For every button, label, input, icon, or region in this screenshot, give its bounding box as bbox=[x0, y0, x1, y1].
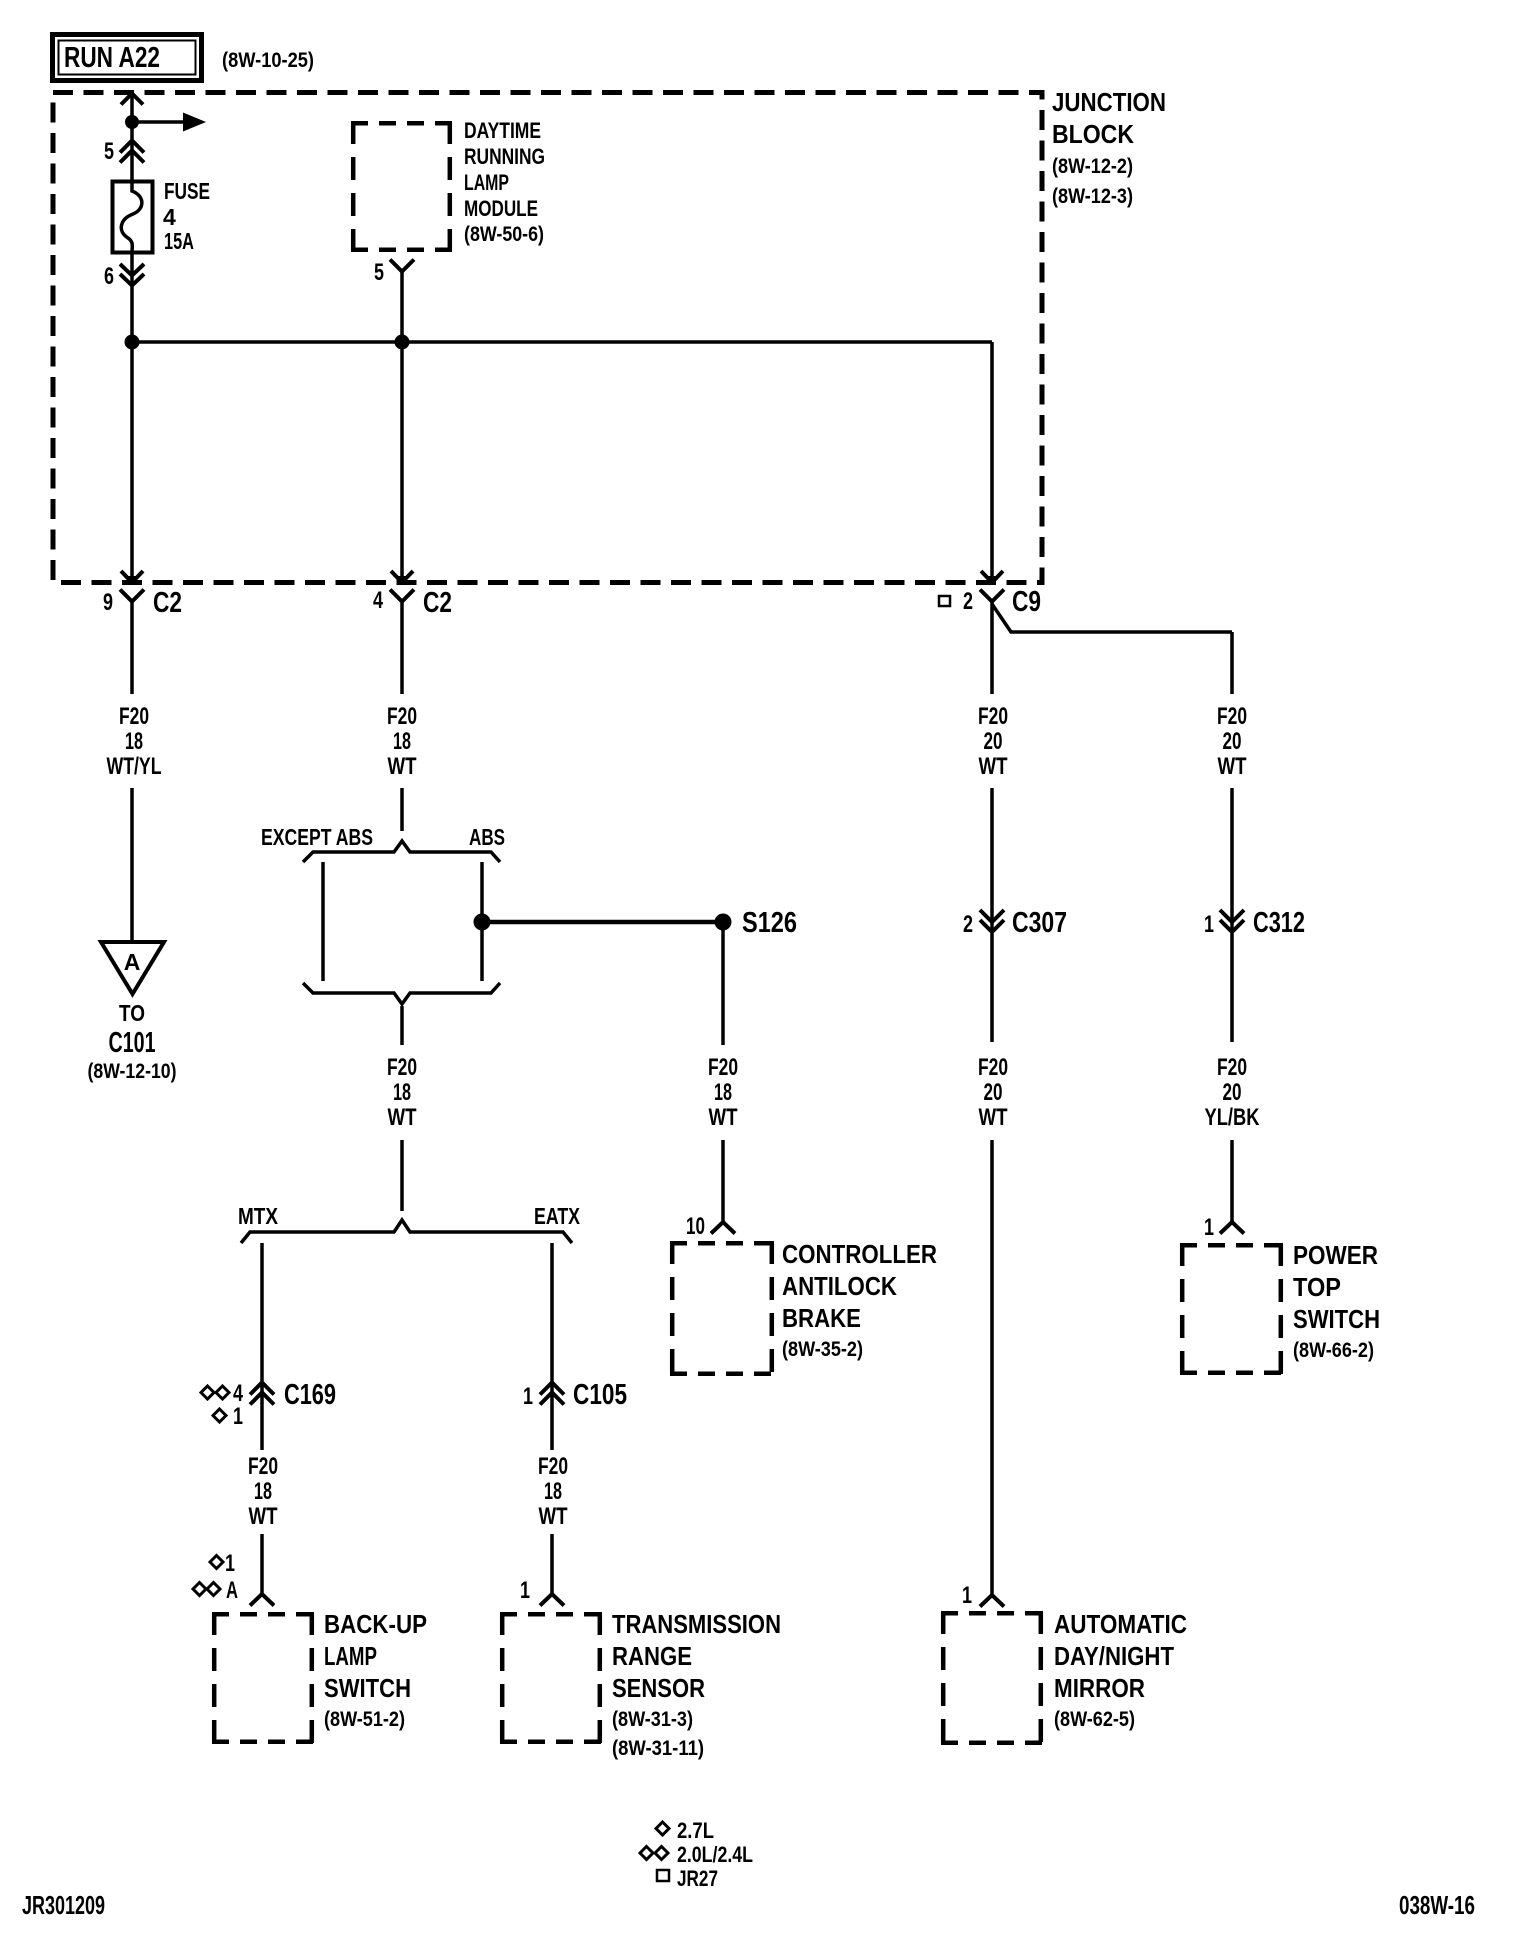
svg-text:AUTOMATIC: AUTOMATIC bbox=[1054, 1609, 1187, 1639]
connector C169 (double chevron up) bbox=[250, 1383, 274, 1405]
wire: bus right to connector C9 bbox=[990, 342, 994, 577]
svg-text:C312: C312 bbox=[1253, 907, 1305, 939]
svg-text:FUSE: FUSE bbox=[164, 178, 210, 204]
svg-text:TRANSMISSION: TRANSMISSION bbox=[612, 1609, 781, 1639]
svg-text:20: 20 bbox=[1223, 1079, 1242, 1106]
wire label F20 18 WT (MTX) bbox=[248, 1453, 278, 1530]
wire: C307 to automatic day/night mirror bbox=[990, 1140, 994, 1595]
connector arrow from RUN A22 into junction block bbox=[121, 94, 143, 123]
svg-text:ANTILOCK: ANTILOCK bbox=[782, 1271, 897, 1301]
svg-text:A: A bbox=[124, 949, 141, 975]
fuse F4 15A bbox=[113, 181, 153, 253]
brace: MTX/EATX split bbox=[241, 1220, 572, 1243]
connector C2 pin 9 bbox=[120, 571, 144, 602]
svg-text:20: 20 bbox=[1223, 728, 1242, 755]
svg-text:(8W-12-2): (8W-12-2) bbox=[1052, 155, 1133, 178]
svg-text:4: 4 bbox=[163, 204, 176, 230]
svg-text:5: 5 bbox=[104, 138, 114, 165]
svg-text:WT: WT bbox=[1218, 753, 1247, 780]
svg-text:F20: F20 bbox=[1217, 1054, 1247, 1081]
wire: label to controller antilock brake bbox=[721, 1140, 725, 1222]
svg-text:SWITCH: SWITCH bbox=[324, 1673, 411, 1703]
svg-text:ABS: ABS bbox=[469, 824, 505, 850]
svg-text:F20: F20 bbox=[119, 703, 149, 730]
svg-text:10: 10 bbox=[686, 1213, 705, 1240]
connector C105 (double chevron up) bbox=[540, 1383, 564, 1405]
svg-text:MTX: MTX bbox=[238, 1203, 279, 1229]
wire label F20 20 YL/BK (power top branch) bbox=[1205, 1054, 1261, 1131]
svg-text:2.7L: 2.7L bbox=[677, 1818, 714, 1843]
svg-text:1: 1 bbox=[520, 1577, 530, 1604]
wire label F20 18 WT (EATX) bbox=[538, 1453, 568, 1530]
svg-text:18: 18 bbox=[254, 1478, 272, 1505]
svg-text:1: 1 bbox=[1204, 911, 1214, 938]
svg-text:18: 18 bbox=[393, 728, 411, 755]
svg-text:F20: F20 bbox=[978, 1054, 1008, 1081]
svg-text:MIRROR: MIRROR bbox=[1054, 1673, 1145, 1703]
wire: ABS junction to splice S126 bbox=[482, 920, 723, 925]
automatic day/night mirror box bbox=[941, 1611, 1043, 1745]
controller antilock brake box bbox=[670, 1241, 774, 1376]
svg-text:RUN A22: RUN A22 bbox=[64, 42, 160, 74]
wire label F20 18 WT/YL bbox=[107, 703, 162, 780]
wire label F20 18 WT (below ABS merge) bbox=[387, 1054, 417, 1131]
svg-text:LAMP: LAMP bbox=[464, 170, 509, 195]
wire: label to off-page triangle bbox=[130, 788, 134, 940]
svg-text:POWER: POWER bbox=[1293, 1240, 1378, 1270]
svg-text:1: 1 bbox=[523, 1383, 533, 1410]
svg-text:2: 2 bbox=[963, 588, 973, 615]
back-up lamp switch variant marker: two diamonds pin A bbox=[193, 1577, 238, 1604]
connector at power top switch bbox=[1220, 1222, 1244, 1234]
svg-text:F20: F20 bbox=[387, 703, 417, 730]
wire label F20 20 WT (C307 branch) bbox=[978, 703, 1008, 780]
wire: splice S126 down to label bbox=[721, 922, 725, 1045]
node: fuse feed junction bbox=[125, 115, 139, 129]
svg-text:BACK-UP: BACK-UP bbox=[324, 1609, 427, 1639]
connector at DRL module pin 5 bbox=[390, 260, 414, 272]
connector C2 pin 4 bbox=[390, 571, 414, 602]
svg-text:18: 18 bbox=[714, 1079, 732, 1106]
connector at transmission range sensor bbox=[540, 1594, 564, 1606]
connector pin 6 (double chevron down) bbox=[120, 264, 144, 286]
svg-text:WT: WT bbox=[979, 1104, 1008, 1131]
bus wire inside junction block bbox=[132, 340, 992, 344]
connector at back-up lamp switch bbox=[250, 1594, 274, 1606]
svg-text:(8W-10-25): (8W-10-25) bbox=[222, 49, 314, 72]
svg-text:C101: C101 bbox=[109, 1027, 156, 1059]
wire: DRL branch to connector C2 pin 4 bbox=[400, 342, 404, 577]
node: ABS branch junction to S126 bbox=[474, 914, 491, 931]
brace: ABS split bottom bbox=[303, 983, 500, 1004]
svg-text:JR27: JR27 bbox=[677, 1866, 718, 1891]
svg-text:18: 18 bbox=[125, 728, 143, 755]
legend: diamond 2.7L bbox=[656, 1818, 714, 1843]
wire: C9 to branch split bbox=[990, 602, 994, 695]
fuse value label bbox=[163, 178, 210, 254]
connector C307 (double chevron down) bbox=[980, 910, 1004, 932]
wire label F20 20 WT (C312 branch) bbox=[1217, 703, 1247, 780]
svg-text:DAYTIME: DAYTIME bbox=[464, 118, 541, 143]
svg-text:RUNNING: RUNNING bbox=[464, 144, 545, 169]
svg-text:1: 1 bbox=[233, 1403, 243, 1430]
svg-text:TOP: TOP bbox=[1293, 1272, 1341, 1302]
svg-text:CONTROLLER: CONTROLLER bbox=[782, 1239, 937, 1269]
wire: bus to connector C2 pin 9 bbox=[130, 342, 134, 577]
svg-text:MODULE: MODULE bbox=[464, 196, 538, 221]
transmission range sensor box bbox=[500, 1612, 602, 1744]
svg-text:18: 18 bbox=[393, 1079, 411, 1106]
svg-text:BLOCK: BLOCK bbox=[1052, 119, 1134, 149]
svg-text:WT: WT bbox=[249, 1503, 278, 1530]
C169 variant marker: two diamonds pin 4 bbox=[201, 1380, 243, 1407]
svg-text:SENSOR: SENSOR bbox=[612, 1673, 705, 1703]
wire: label to C312 bbox=[1230, 788, 1234, 1042]
wire: label to back-up lamp switch bbox=[260, 1534, 264, 1594]
svg-text:C9: C9 bbox=[1012, 586, 1041, 618]
svg-text:(8W-12-3): (8W-12-3) bbox=[1052, 185, 1133, 208]
connector pin 5 (double chevron up) bbox=[120, 141, 144, 163]
svg-text:LAMP: LAMP bbox=[324, 1641, 377, 1671]
svg-text:2.0L/2.4L: 2.0L/2.4L bbox=[677, 1842, 753, 1867]
svg-text:EATX: EATX bbox=[534, 1203, 581, 1229]
wire: EXCEPT ABS branch bbox=[321, 862, 325, 981]
svg-text:(8W-50-6): (8W-50-6) bbox=[464, 223, 544, 246]
svg-text:2: 2 bbox=[963, 911, 973, 938]
node: bus left junction bbox=[125, 335, 140, 350]
controller antilock brake label bbox=[782, 1239, 937, 1361]
back-up lamp switch variant marker: diamond pin 1 bbox=[210, 1550, 235, 1577]
wire label F20 18 WT (S126 branch) bbox=[708, 1054, 738, 1131]
wire: C9 diagonal branch to right column bbox=[992, 604, 1232, 632]
svg-text:C2: C2 bbox=[153, 587, 182, 619]
wire: DRL module to bus bbox=[400, 272, 404, 343]
wire: MTX branch to C169 bbox=[260, 1243, 264, 1450]
svg-text:WT: WT bbox=[979, 753, 1008, 780]
svg-text:15A: 15A bbox=[164, 228, 194, 254]
svg-text:F20: F20 bbox=[538, 1453, 568, 1480]
wire: ABS branch bbox=[480, 862, 484, 981]
C169 variant marker: diamond pin 1 bbox=[213, 1403, 243, 1430]
svg-text:(8W-35-2): (8W-35-2) bbox=[782, 1338, 863, 1361]
svg-text:WT: WT bbox=[709, 1104, 738, 1131]
wire: C2 pin 4 to label bbox=[400, 602, 404, 695]
legend: square JR27 bbox=[657, 1866, 718, 1891]
svg-text:1: 1 bbox=[1204, 1214, 1214, 1241]
svg-text:(8W-62-5): (8W-62-5) bbox=[1054, 1708, 1135, 1731]
svg-text:F20: F20 bbox=[978, 703, 1008, 730]
svg-text:C307: C307 bbox=[1012, 907, 1067, 939]
svg-text:RANGE: RANGE bbox=[612, 1641, 692, 1671]
svg-text:F20: F20 bbox=[248, 1453, 278, 1480]
svg-text:BRAKE: BRAKE bbox=[782, 1303, 861, 1333]
svg-text:DAY/NIGHT: DAY/NIGHT bbox=[1054, 1641, 1174, 1671]
svg-text:20: 20 bbox=[984, 1079, 1003, 1106]
svg-text:C169: C169 bbox=[284, 1379, 336, 1411]
back-up lamp switch label bbox=[324, 1609, 427, 1731]
connector C9 pin 2 bbox=[980, 571, 1004, 602]
svg-text:JR301209: JR301209 bbox=[22, 1890, 105, 1920]
wire: node to fuse bbox=[130, 122, 134, 181]
svg-text:C105: C105 bbox=[573, 1379, 627, 1411]
daytime running lamp module box bbox=[351, 121, 452, 252]
svg-text:6: 6 bbox=[104, 263, 114, 290]
JR27 marker square at C9 bbox=[939, 596, 950, 606]
svg-text:1: 1 bbox=[962, 1582, 972, 1609]
svg-text:(8W-31-3): (8W-31-3) bbox=[612, 1708, 693, 1731]
svg-text:(8W-66-2): (8W-66-2) bbox=[1293, 1339, 1374, 1362]
svg-text:(8W-31-11): (8W-31-11) bbox=[612, 1737, 704, 1760]
wire: label to C307 bbox=[990, 788, 994, 1042]
svg-text:TO: TO bbox=[119, 1000, 145, 1026]
wire label F20 20 WT (mirror branch) bbox=[978, 1054, 1008, 1131]
svg-text:SWITCH: SWITCH bbox=[1293, 1304, 1380, 1334]
svg-text:(8W-51-2): (8W-51-2) bbox=[324, 1708, 405, 1731]
splice S126 bbox=[715, 914, 732, 931]
svg-text:C2: C2 bbox=[423, 587, 452, 619]
transmission range sensor label bbox=[612, 1609, 781, 1760]
brace: ABS split top bbox=[303, 841, 500, 862]
node: DRL branch junction bbox=[395, 335, 410, 350]
svg-text:F20: F20 bbox=[387, 1054, 417, 1081]
wire: EATX branch to C105 bbox=[550, 1243, 554, 1450]
power top switch label bbox=[1293, 1240, 1380, 1362]
junction block boundary bbox=[53, 93, 1042, 583]
power top switch box bbox=[1180, 1243, 1283, 1375]
connector C312 (double chevron down) bbox=[1220, 910, 1244, 932]
wire: right column down bbox=[1230, 632, 1234, 694]
connector at controller antilock brake bbox=[711, 1222, 735, 1234]
svg-text:F20: F20 bbox=[708, 1054, 738, 1081]
svg-text:(8W-12-10): (8W-12-10) bbox=[88, 1060, 177, 1083]
legend: two diamonds 2.0L/2.4L bbox=[640, 1842, 753, 1867]
wire: C312 to power top switch bbox=[1230, 1140, 1234, 1222]
connector at automatic day/night mirror bbox=[980, 1595, 1004, 1607]
wire: ABS split merge down bbox=[400, 1006, 404, 1045]
arrow wire to other circuits bbox=[132, 113, 206, 132]
wire: label to MTX/EATX split bbox=[400, 1140, 404, 1211]
svg-text:A: A bbox=[226, 1577, 238, 1604]
svg-text:4: 4 bbox=[373, 587, 383, 614]
svg-text:WT: WT bbox=[388, 753, 417, 780]
automatic day/night mirror label bbox=[1054, 1609, 1187, 1731]
svg-text:1: 1 bbox=[225, 1550, 235, 1577]
power feed box RUN A22 bbox=[53, 35, 202, 81]
svg-text:20: 20 bbox=[984, 728, 1003, 755]
svg-text:9: 9 bbox=[103, 589, 113, 616]
svg-text:EXCEPT ABS: EXCEPT ABS bbox=[261, 824, 373, 850]
back-up lamp switch box bbox=[212, 1612, 314, 1744]
svg-text:YL/BK: YL/BK bbox=[1205, 1104, 1261, 1131]
wire: C2 pin 9 to label bbox=[130, 602, 134, 695]
junction block label bbox=[1052, 87, 1166, 208]
svg-text:WT: WT bbox=[539, 1503, 568, 1530]
svg-text:F20: F20 bbox=[1217, 703, 1247, 730]
wire: label to ABS split bbox=[400, 788, 404, 831]
svg-text:5: 5 bbox=[374, 259, 384, 286]
svg-text:S126: S126 bbox=[742, 907, 797, 939]
wire: fuse to bus bbox=[130, 252, 134, 342]
wire: label to transmission range sensor bbox=[550, 1534, 554, 1594]
svg-text:18: 18 bbox=[544, 1478, 562, 1505]
daytime running lamp module label bbox=[464, 118, 545, 246]
svg-text:WT: WT bbox=[388, 1104, 417, 1131]
destination label TO C101 bbox=[88, 1000, 177, 1083]
wire label F20 18 WT (center branch) bbox=[387, 703, 417, 780]
off-page reference triangle A bbox=[101, 942, 164, 994]
svg-text:038W-16: 038W-16 bbox=[1399, 1890, 1475, 1920]
svg-text:JUNCTION: JUNCTION bbox=[1052, 87, 1166, 117]
svg-text:WT/YL: WT/YL bbox=[107, 753, 162, 780]
